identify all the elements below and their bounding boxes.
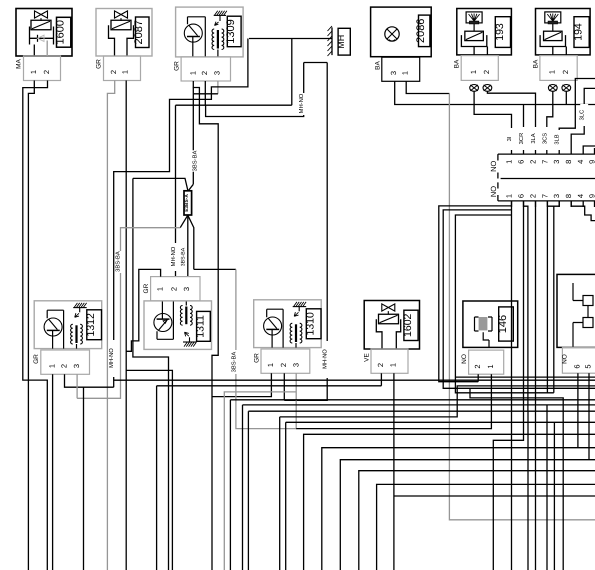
wire band y377.1: [455, 376, 595, 378]
wire 1309 pin1 branch down to splice: [192, 88, 194, 185]
svg-text:1: 1: [266, 363, 275, 367]
injector 194: [536, 9, 591, 56]
wire 3CR from rail to NO pin6: [523, 105, 525, 155]
wire right comp pin6 down: [577, 373, 579, 448]
wire 1602 pin2 to H2: [380, 373, 382, 386]
svg-text:1312: 1312: [85, 313, 97, 337]
wire 1312 pin3 gray stub: [76, 374, 78, 398]
svg-text:2: 2: [482, 70, 491, 74]
wire splice to right descent 193.7: [188, 215, 194, 269]
nested corner 3: [340, 460, 595, 570]
wire 1311 pin2 riser MH-NO: [175, 105, 177, 276]
wire ECU bottom pin1 down: [511, 201, 513, 570]
svg-text:3BS-BA: 3BS-BA: [181, 247, 187, 266]
connector of 1312 (pins 1,2,3) label GR: [33, 350, 89, 374]
wire 1600 pin1 to bottom: [28, 81, 34, 570]
wire y105.2 node line: [176, 104, 292, 106]
svg-text:2: 2: [529, 194, 538, 198]
ECU pin numbers bottom row: [505, 194, 595, 198]
svg-text:1: 1: [548, 70, 557, 74]
svg-text:1: 1: [486, 364, 495, 368]
svg-text:7: 7: [540, 194, 549, 198]
svg-text:MH: MH: [336, 35, 346, 49]
ECU bottom row pin stubs: [512, 201, 595, 207]
connector of 1309 (pins 1,2,3) label GR: [174, 57, 231, 81]
svg-text:6: 6: [517, 160, 526, 164]
svg-text:2087: 2087: [133, 20, 145, 44]
wire long MH-NO vertical 327.2 to 1310 pin2: [284, 63, 327, 401]
connector of 194 (pins 1,2) label BA: [532, 56, 577, 81]
ECU connector rows label NO: [489, 154, 595, 201]
svg-text:3: 3: [291, 363, 300, 367]
svg-text:194: 194: [573, 23, 585, 41]
wire 194 pin2 to rail: [565, 92, 567, 105]
wire into splice from 3BS-BA above: [188, 184, 193, 191]
svg-text:9: 9: [588, 194, 595, 198]
wire 1309 pin2 down to node: [204, 81, 206, 105]
svg-text:MH-NO: MH-NO: [170, 246, 177, 266]
svg-text:3: 3: [182, 287, 191, 291]
wire node y93.8: [193, 93, 218, 95]
svg-text:1309: 1309: [225, 19, 237, 43]
wire H y411.2: [248, 411, 595, 570]
wire NO pin9 stub: [594, 148, 595, 154]
wire branch staircase y397.9: [470, 388, 563, 570]
svg-text:3BS-BA: 3BS-BA: [231, 352, 238, 373]
svg-text:NO: NO: [461, 354, 468, 364]
wire H y422.3: [286, 422, 595, 570]
svg-text:3CS: 3CS: [541, 133, 548, 144]
wire 132.9 descent: [133, 178, 169, 570]
svg-text:1600: 1600: [55, 20, 67, 44]
ground hatch inside 1309: [214, 14, 226, 16]
wire 146 pin1 down to y428.6 rail: [296, 374, 491, 428]
nested corner 1: [304, 434, 595, 570]
svg-text:3I: 3I: [506, 136, 513, 141]
wire 194 pin1 to NO pin7 (3CS): [547, 92, 553, 155]
svg-text:1: 1: [121, 70, 130, 74]
svg-text:GR: GR: [143, 283, 150, 293]
svg-text:1: 1: [48, 364, 57, 368]
svg-text:6: 6: [572, 364, 581, 368]
connector of 1600 (pins 1,2) label MA: [16, 56, 61, 81]
solenoid valve 1602: [364, 301, 419, 350]
svg-text:1311: 1311: [194, 315, 206, 338]
wire drop at 554.4: [553, 422, 555, 570]
svg-text:NO: NO: [562, 354, 569, 364]
svg-text:1: 1: [469, 70, 478, 74]
wire 1309 pin3 (gray stub): [217, 81, 219, 94]
injector 193: [457, 9, 512, 56]
sensor 146: [463, 301, 518, 347]
svg-text:MH-NO: MH-NO: [108, 348, 115, 368]
svg-text:BA: BA: [454, 59, 461, 68]
svg-text:1: 1: [389, 363, 398, 367]
svg-text:1: 1: [29, 70, 38, 74]
svg-text:9: 9: [588, 160, 595, 164]
gray wire to 1312 pin3: [77, 228, 180, 399]
svg-text:3: 3: [552, 194, 561, 198]
wire NO pin4 from right: [583, 146, 595, 154]
wire splice to gray via diagonal: [180, 215, 188, 228]
sensor 1309: [176, 7, 244, 57]
solenoid valve 1600: [16, 9, 72, 57]
svg-text:2: 2: [473, 364, 482, 368]
sensor 1311 (inverted): [144, 301, 212, 350]
nested corner 6: [394, 495, 595, 497]
svg-text:BA: BA: [374, 61, 381, 70]
wire gray 3BS-BA from y269.4 down to 1310 pin3: [236, 269, 296, 428]
ground symbol MH: [249, 26, 350, 56]
wire 1600 pin2 to bottom: [23, 81, 48, 570]
svg-text:7: 7: [540, 160, 549, 164]
wire 2086 pin3 to right rail y104.5: [395, 81, 595, 104]
wire drop at 83.5 from 1312 pin2 jog: [83, 387, 85, 570]
svg-text:3: 3: [212, 71, 221, 75]
wire 1602 pin1 to bottom: [393, 373, 395, 570]
wire 3LB from right edge to NO pin3: [559, 79, 595, 155]
wire gray branch to bottom: [224, 392, 296, 570]
wire 1312 pin2 to MH-NO: [65, 374, 114, 387]
wire ECU pin1 third branch to pin7 rail: [455, 215, 553, 393]
nested corner 5: [377, 484, 595, 570]
wire branch y99.4 to left descent: [114, 94, 212, 387]
svg-text:193: 193: [494, 23, 506, 41]
svg-text:3BS-BA: 3BS-BA: [115, 251, 122, 272]
wire MH horizontal y62.5: [304, 62, 328, 64]
sensor 1312: [34, 301, 102, 349]
connector of 193 (pins 1,2) label BA: [454, 56, 499, 81]
svg-text:2: 2: [170, 287, 179, 291]
wire H y404.9: [243, 405, 595, 570]
wire H y399.8: [230, 400, 595, 570]
svg-text:1: 1: [505, 160, 514, 164]
wire drop from pin3 tie: [553, 206, 555, 393]
svg-text:E3BS-A: E3BS-A: [184, 194, 190, 212]
splice circles under 194: [548, 85, 557, 92]
wire ECU pin6 down two branches: [493, 201, 523, 570]
wire 193 pin2 to NO pin2 (3LA): [487, 92, 535, 155]
wire 1310 pin1 left jog: [212, 373, 271, 396]
wire ECU pin8 staircase right: [571, 201, 595, 221]
splice E3BS-A: [184, 191, 192, 215]
svg-text:3BS-BA: 3BS-BA: [192, 151, 199, 172]
connector of 1311 on top (pins 1,2,3) label GR: [143, 277, 200, 301]
wire ECU pin3 tie to pin7: [547, 201, 559, 206]
connector of 2087 (pins 2,1) label GR: [96, 56, 141, 81]
wire y269.4 splice wire to gray 3BS-BA: [194, 268, 236, 270]
svg-text:8: 8: [564, 194, 573, 198]
svg-text:BA: BA: [532, 59, 539, 68]
svg-text:GR: GR: [96, 59, 103, 69]
svg-text:1: 1: [155, 287, 164, 291]
wire 1310 pin2 stub: [283, 373, 285, 400]
wire ECU pin7 down to rail: [546, 201, 548, 393]
svg-text:NO: NO: [489, 186, 498, 197]
splice circles under 193: [470, 85, 479, 92]
svg-text:GR: GR: [253, 353, 260, 363]
svg-text:2: 2: [42, 70, 51, 74]
wire 1312 pin1 to bottom: [52, 374, 54, 570]
wire splice to 1311 pin3: [187, 215, 189, 276]
svg-text:2086: 2086: [415, 19, 427, 43]
svg-text:1310: 1310: [305, 312, 317, 336]
wire MH riser at 291.8: [291, 39, 293, 106]
svg-text:1: 1: [505, 194, 514, 198]
svg-text:MH-NO: MH-NO: [322, 349, 329, 369]
wire 1309 pin1 jog: [193, 81, 218, 570]
wire H y416.9 with riser to y385.9: [280, 386, 595, 570]
svg-text:2: 2: [200, 71, 209, 75]
gray rail from 2086 pin1 down and right: [449, 94, 595, 520]
svg-text:2: 2: [279, 363, 288, 367]
wire 2087 pin1 to bottom: [125, 81, 127, 570]
svg-text:1: 1: [401, 71, 410, 75]
svg-text:4: 4: [576, 160, 585, 164]
connector at right edge (pins 6,5) label NO: [557, 274, 595, 373]
svg-text:3LC: 3LC: [579, 110, 586, 121]
nested corner 2: [322, 448, 595, 570]
svg-text:MH-NO: MH-NO: [298, 93, 305, 113]
wire into splice from left y178.4: [133, 178, 188, 191]
wire drop at 547: [546, 405, 548, 570]
svg-text:8: 8: [564, 160, 573, 164]
ECU pin numbers top row: [505, 160, 595, 164]
solenoid valve 2087: [96, 9, 152, 57]
nested corner 4: [359, 471, 595, 570]
svg-text:2: 2: [109, 70, 118, 74]
wire 1311 pin1 staircase to 2087 pin1 rail: [126, 269, 160, 351]
svg-text:2: 2: [561, 70, 570, 74]
wire MH-NO labeled riser 303.7: [206, 63, 304, 117]
connector of 1310 (pins 1,2,3) label GR: [253, 349, 309, 373]
svg-text:2: 2: [376, 363, 385, 367]
svg-text:4: 4: [576, 194, 585, 198]
svg-text:3LA: 3LA: [530, 133, 537, 143]
svg-text:3: 3: [72, 364, 81, 368]
wire 2086 pin1 to gray rail: [406, 81, 449, 93]
svg-text:146: 146: [497, 315, 509, 333]
svg-text:MA: MA: [16, 58, 23, 68]
svg-text:3: 3: [389, 71, 398, 75]
pump 2086: [371, 7, 432, 57]
svg-text:6: 6: [517, 194, 526, 198]
wire 2087 pin2 (gray) to bottom: [107, 81, 114, 570]
svg-text:3LB: 3LB: [554, 134, 561, 144]
sensor 1310: [254, 300, 322, 348]
svg-text:VE: VE: [363, 353, 370, 362]
svg-text:2: 2: [60, 364, 69, 368]
net label MH-NO on x113.7: [109, 340, 118, 377]
wire 2087 jog lines: [126, 370, 172, 570]
wire ECU pin2 down: [535, 201, 537, 570]
wire H1 long y380.2: [114, 379, 595, 381]
svg-text:3: 3: [552, 160, 561, 164]
svg-text:GR: GR: [33, 354, 40, 364]
svg-text:3CR: 3CR: [518, 133, 525, 145]
wire H2 y385.8: [157, 386, 382, 570]
svg-text:5: 5: [584, 364, 593, 368]
connector of 1602 (pins 2,1) label VE: [363, 349, 408, 373]
svg-text:GR: GR: [174, 61, 181, 71]
wire 146 pin2 to ECU pin1 via 438.8: [439, 206, 512, 382]
wire 193 pin1 to NO pin1 (3I): [474, 92, 511, 155]
wire ECU pin1 second branch long y388.3: [443, 210, 595, 388]
svg-text:1602: 1602: [402, 313, 414, 337]
svg-text:1: 1: [188, 71, 197, 75]
svg-text:2: 2: [529, 160, 538, 164]
svg-text:NO: NO: [489, 161, 498, 172]
wire right comp pin5 down: [588, 373, 590, 460]
wire 1309 pin3 net to MH line: [211, 39, 248, 94]
connector of 2086 (pins 3,1) label BA: [374, 57, 419, 81]
connector of 146 (pins 2,1) label NO: [461, 350, 504, 374]
wire 3LC from right edge to NO pin8: [571, 88, 595, 154]
wire drop at 528: [527, 411, 529, 570]
